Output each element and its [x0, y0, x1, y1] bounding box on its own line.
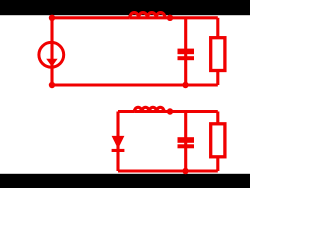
junction dot: node C, bottom wire at capacitor (185.5,85) — [182, 82, 188, 88]
wire: bottom horizontal — [52, 83, 218, 86]
wire: top horizontal right segment — [164, 110, 218, 113]
wire: left vertical (through diode) — [116, 112, 119, 172]
wire: top horizontal left segment — [118, 110, 134, 113]
capacitor C1 branch lead (node B to node C) — [184, 18, 187, 85]
wire: right vertical lower lead from resistor — [216, 69, 219, 85]
wire: top horizontal under coil — [134, 110, 164, 113]
wire: top horizontal left segment — [52, 16, 130, 19]
inductor L1 (coil bumps on top wire) — [130, 13, 165, 18]
wire: top horizontal under coil — [130, 16, 165, 19]
top black bar — [0, 0, 250, 15]
junction dot: node D, top wire after coil (170,111.5) — [167, 108, 173, 114]
current source I1 (circle) — [39, 42, 64, 67]
junction dot: node A, top-left corner (52,17.8) — [49, 15, 55, 21]
capacitor C2 branch lead — [184, 112, 187, 172]
bottom black bar — [0, 174, 250, 188]
junction dot: node B, top wire after coil (170,17.8) — [167, 15, 173, 21]
wire: bottom horizontal — [118, 169, 218, 172]
resistor R2 (white-filled rectangle) — [211, 124, 225, 157]
junction dot: bottom-left corner (52,85) — [49, 82, 55, 88]
wire: right vertical upper lead to resistor — [216, 18, 219, 39]
inductor L2 (coil bumps) — [134, 107, 164, 111]
capacitor C2 plates — [178, 137, 195, 148]
wire: right vertical upper lead to resistor — [216, 112, 219, 125]
white background — [0, 0, 250, 188]
capacitor C1 plates — [178, 49, 195, 61]
wire: top horizontal right segment — [165, 16, 218, 19]
resistor R1 (white-filled rectangle) — [211, 38, 225, 71]
junction dot: node E, bottom wire at capacitor (185.5,171) — [182, 168, 188, 174]
wire: top-left vertical (left branch, through source) — [50, 18, 53, 85]
diode D1 (triangle pointing down + cathode bar) — [112, 136, 125, 149]
wire: right vertical lower lead from resistor — [216, 155, 219, 171]
current source I1 arrowhead (points down) — [46, 59, 57, 67]
